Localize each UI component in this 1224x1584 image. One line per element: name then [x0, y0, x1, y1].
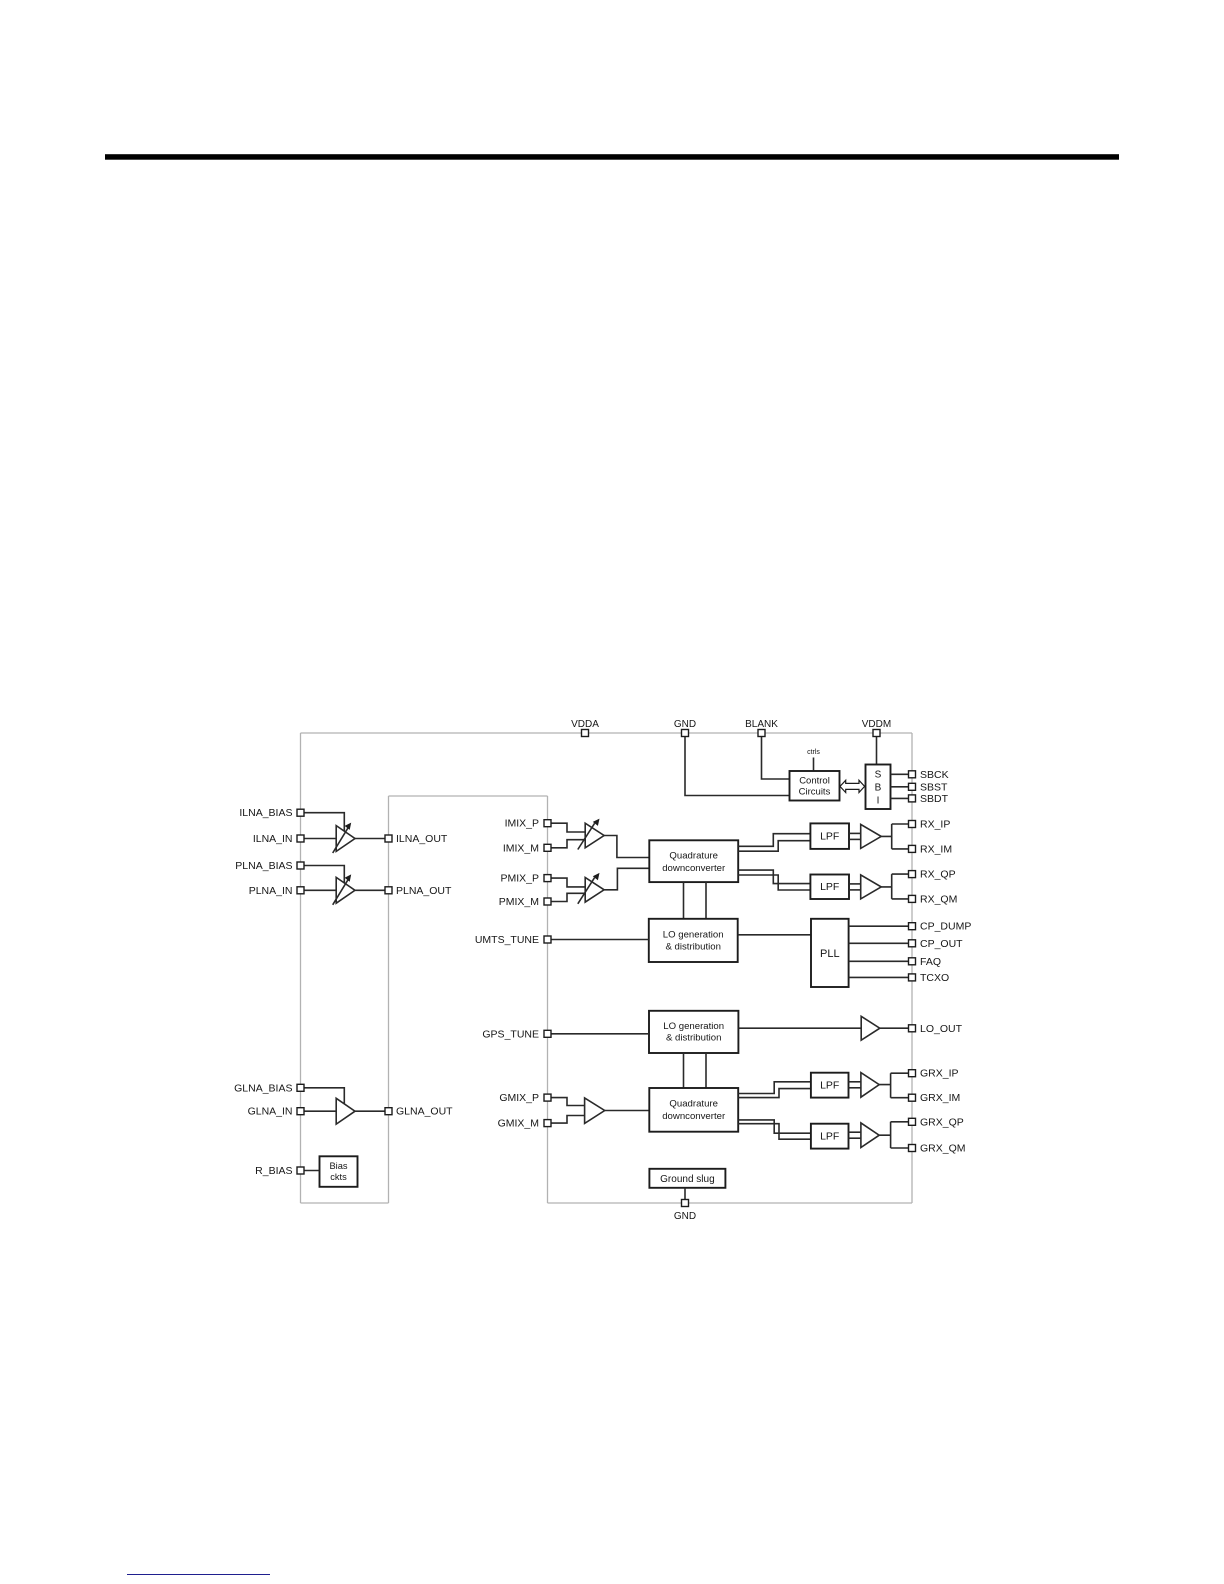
- wire pair quad2 to LPF4: [738, 1120, 811, 1139]
- svg-text:PLNA_BIAS: PLNA_BIAS: [235, 860, 292, 872]
- amplifier GRX I: [861, 1073, 879, 1098]
- svg-text:SBDT: SBDT: [920, 793, 949, 805]
- svg-text:VDDA: VDDA: [571, 719, 599, 730]
- pin ILNA_BIAS: [239, 807, 304, 819]
- svg-text:B: B: [875, 783, 882, 794]
- wire PMIX_P: [548, 878, 586, 887]
- block SBI U-SBI: [866, 765, 891, 810]
- pin GPS_TUNE: [482, 1028, 551, 1040]
- wire LO_OUT: [880, 1027, 909, 1029]
- svg-text:downconverter: downconverter: [662, 863, 726, 874]
- svg-text:BLANK: BLANK: [745, 719, 778, 730]
- pin RX_IP: [909, 819, 951, 831]
- amplifier RX Q: [861, 875, 882, 899]
- svg-text:PLL: PLL: [820, 948, 840, 960]
- amplifier GLNA: [336, 1098, 355, 1124]
- pin RX_QP: [909, 869, 956, 881]
- svg-text:Bias: Bias: [329, 1161, 347, 1171]
- label ctrls: [807, 749, 820, 756]
- block LPF1: [810, 823, 849, 849]
- wire LO2 to quad2 left: [683, 1053, 685, 1088]
- svg-text:ctrls: ctrls: [807, 749, 820, 756]
- svg-text:LPF: LPF: [820, 831, 839, 843]
- svg-text:GRX_QP: GRX_QP: [920, 1116, 964, 1128]
- pin GND bottom: [674, 1200, 696, 1223]
- footer link underline: [127, 1574, 270, 1576]
- wire CP_DUMP: [849, 925, 909, 927]
- amplifier ILNA: [333, 826, 355, 853]
- svg-text:CP_DUMP: CP_DUMP: [920, 921, 971, 933]
- wire ILNA_IN: [301, 838, 337, 840]
- wire PMIX out: [604, 868, 649, 890]
- wire RX_IP RX_IM split: [881, 824, 908, 849]
- svg-text:RX_QM: RX_QM: [920, 893, 957, 905]
- svg-text:UMTS_TUNE: UMTS_TUNE: [475, 934, 539, 946]
- svg-text:IMIX_P: IMIX_P: [505, 818, 539, 830]
- wire pair LPF2 to amp: [849, 884, 861, 890]
- svg-text:FAQ: FAQ: [920, 956, 941, 968]
- chip outer boundary: [301, 733, 913, 1203]
- wire GPS_TUNE: [548, 1033, 650, 1035]
- pin RX_IM: [909, 843, 953, 855]
- wire GLNA_IN: [301, 1110, 337, 1112]
- pin IMIX_M: [503, 842, 551, 854]
- pin GMIX_M: [498, 1118, 551, 1130]
- block Quadrature downconverter UMTS: [649, 840, 738, 882]
- pin BLANK: [745, 719, 778, 737]
- pin SBDT: [909, 793, 949, 805]
- svg-text:GMIX_M: GMIX_M: [498, 1118, 539, 1130]
- pin GMIX_P: [499, 1092, 551, 1104]
- pin VDDA: [571, 719, 599, 737]
- svg-text:Ground slug: Ground slug: [660, 1174, 714, 1185]
- amplifier GMIX: [585, 1098, 605, 1124]
- wire LO2 to amp: [738, 1027, 861, 1029]
- svg-text:& distribution: & distribution: [666, 1033, 721, 1044]
- wire SBST: [891, 786, 909, 788]
- svg-text:GLNA_BIAS: GLNA_BIAS: [234, 1082, 292, 1094]
- svg-text:ILNA_IN: ILNA_IN: [253, 833, 293, 845]
- wire PLNA_IN: [301, 889, 337, 891]
- amplifier IMIX VGA: [578, 823, 604, 849]
- svg-text:PLNA_IN: PLNA_IN: [249, 885, 293, 897]
- svg-text:GPS_TUNE: GPS_TUNE: [482, 1028, 539, 1040]
- svg-text:I: I: [877, 796, 880, 807]
- pin GLNA_OUT: [385, 1106, 453, 1118]
- pin GND top: [674, 719, 696, 737]
- wire pair LPF4 to amp: [849, 1132, 861, 1138]
- wire pair LPF1 to amp: [849, 833, 861, 839]
- block LO generation GPS: [649, 1011, 738, 1053]
- block Quadrature downconverter GPS: [649, 1088, 738, 1132]
- LNA inner box boundary: [389, 796, 548, 1203]
- block LPF4: [811, 1124, 849, 1149]
- wire PLNA_OUT: [355, 889, 389, 891]
- svg-text:PLNA_OUT: PLNA_OUT: [396, 885, 452, 897]
- header rule: [105, 154, 1119, 160]
- pin IMIX_P: [505, 818, 551, 830]
- pin LO_OUT: [909, 1023, 963, 1035]
- svg-text:GRX_IP: GRX_IP: [920, 1068, 959, 1080]
- wire GRX_IP GRX_IM split: [879, 1073, 908, 1098]
- wire GRX_QP GRX_QM split: [879, 1122, 908, 1148]
- wire pair quad1 to LPF1: [738, 834, 810, 852]
- svg-text:GLNA_OUT: GLNA_OUT: [396, 1106, 453, 1118]
- wire SBDT: [891, 797, 909, 799]
- svg-text:LO_OUT: LO_OUT: [920, 1023, 963, 1035]
- svg-text:IMIX_M: IMIX_M: [503, 842, 539, 854]
- svg-text:SBST: SBST: [920, 781, 948, 793]
- wire quad1 to LO1 left: [683, 882, 685, 919]
- wire BLANK: [762, 733, 790, 779]
- wire pair LPF3 to amp: [849, 1082, 861, 1088]
- svg-text:ILNA_BIAS: ILNA_BIAS: [239, 807, 292, 819]
- wire IMIX_P: [548, 823, 586, 832]
- svg-text:LPF: LPF: [820, 1131, 839, 1143]
- amplifier RX I: [861, 824, 882, 848]
- wire IMIX_M: [548, 840, 586, 848]
- pin GRX_QM: [909, 1143, 966, 1155]
- pin PMIX_M: [499, 896, 551, 908]
- pin FAQ: [909, 956, 942, 968]
- pin ILNA_IN: [253, 833, 304, 845]
- double arrow Control-SBI: [840, 780, 865, 792]
- pin GLNA_BIAS: [234, 1082, 304, 1094]
- pin GLNA_IN: [248, 1106, 304, 1118]
- svg-text:SBCK: SBCK: [920, 769, 949, 781]
- wire GLNA_OUT: [355, 1110, 389, 1112]
- wire FAQ: [849, 960, 909, 962]
- wire TCXO: [849, 976, 909, 978]
- wire ILNA_BIAS: [301, 813, 345, 831]
- svg-text:PMIX_P: PMIX_P: [500, 873, 539, 885]
- wire pair quad1 to LPF2: [738, 870, 810, 890]
- svg-text:ILNA_OUT: ILNA_OUT: [396, 833, 448, 845]
- pin CP_DUMP: [909, 921, 972, 933]
- svg-text:RX_IP: RX_IP: [920, 819, 950, 831]
- block LPF2: [810, 875, 849, 900]
- wire ground slug to GND: [684, 1188, 686, 1203]
- pin PMIX_P: [500, 873, 551, 885]
- amplifier LO_OUT: [861, 1016, 880, 1040]
- wire CP_OUT: [849, 942, 909, 944]
- wire LO1 to PLL: [738, 934, 811, 936]
- svg-text:S: S: [875, 770, 882, 781]
- svg-text:LPF: LPF: [820, 881, 839, 893]
- svg-text:GND: GND: [674, 1211, 696, 1222]
- svg-text:ckts: ckts: [330, 1172, 347, 1182]
- block PLL: [811, 919, 849, 987]
- svg-text:RX_IM: RX_IM: [920, 843, 952, 855]
- svg-text:Quadrature: Quadrature: [669, 1098, 718, 1109]
- pin GRX_IP: [909, 1068, 959, 1080]
- svg-text:Circuits: Circuits: [799, 787, 831, 798]
- pin UMTS_TUNE: [475, 934, 551, 946]
- pin GRX_QP: [909, 1116, 964, 1128]
- pin PLNA_OUT: [385, 885, 452, 897]
- svg-text:LO generation: LO generation: [663, 1021, 724, 1032]
- block Ground slug: [649, 1169, 725, 1188]
- block Bias ckts: [320, 1156, 358, 1187]
- svg-text:RX_QP: RX_QP: [920, 869, 956, 881]
- wire ILNA_OUT: [355, 838, 389, 840]
- svg-text:GLNA_IN: GLNA_IN: [248, 1106, 293, 1118]
- svg-text:CP_OUT: CP_OUT: [920, 938, 963, 950]
- wire GMIX_P: [548, 1098, 585, 1106]
- svg-text:GRX_QM: GRX_QM: [920, 1143, 966, 1155]
- amplifier GRX Q: [861, 1123, 879, 1148]
- svg-text:GRX_IM: GRX_IM: [920, 1092, 960, 1104]
- amplifier PMIX VGA: [578, 878, 604, 904]
- svg-text:GND: GND: [674, 719, 696, 730]
- wire quad1 to LO1 right: [705, 882, 707, 919]
- pin RX_QM: [909, 893, 958, 905]
- pin R_BIAS: [255, 1165, 304, 1177]
- wire GND top: [685, 733, 790, 796]
- svg-text:PMIX_M: PMIX_M: [499, 896, 539, 908]
- pin SBST: [909, 781, 949, 793]
- wire R_BIAS: [301, 1170, 320, 1172]
- svg-text:LO generation: LO generation: [663, 930, 724, 941]
- block LO generation UMTS: [649, 919, 738, 962]
- svg-text:LPF: LPF: [820, 1080, 839, 1092]
- wire VDDM: [876, 733, 878, 765]
- svg-text:& distribution: & distribution: [665, 942, 720, 953]
- svg-text:TCXO: TCXO: [920, 972, 949, 984]
- wire GMIX_M: [548, 1116, 585, 1124]
- svg-text:GMIX_P: GMIX_P: [499, 1092, 539, 1104]
- wire SBCK: [891, 773, 909, 775]
- wire RX_QP RX_QM split: [881, 874, 908, 899]
- pin GRX_IM: [909, 1092, 961, 1104]
- wire LO2 to quad2 right: [705, 1053, 707, 1088]
- pin TCXO: [909, 972, 950, 984]
- wire UMTS_TUNE: [548, 939, 649, 941]
- wire GLNA_BIAS: [301, 1088, 345, 1104]
- amplifier PLNA: [333, 877, 355, 904]
- svg-text:R_BIAS: R_BIAS: [255, 1165, 292, 1177]
- wire GMIX out: [605, 1110, 650, 1112]
- svg-text:VDDM: VDDM: [862, 719, 891, 730]
- svg-text:Quadrature: Quadrature: [669, 851, 718, 862]
- pin CP_OUT: [909, 938, 964, 950]
- svg-text:downconverter: downconverter: [662, 1111, 726, 1122]
- pin SBCK: [909, 769, 949, 781]
- pin PLNA_IN: [249, 885, 304, 897]
- wire ctrls: [813, 758, 815, 772]
- svg-text:Control: Control: [799, 776, 830, 787]
- block LPF3: [811, 1073, 849, 1098]
- pin PLNA_BIAS: [235, 860, 304, 872]
- pin VDDM: [862, 719, 891, 737]
- wire pair quad2 to LPF3: [738, 1082, 811, 1098]
- block Control Circuits: [790, 771, 840, 801]
- wire PLNA_BIAS: [301, 866, 345, 884]
- wire PMIX_M: [548, 893, 586, 901]
- pin ILNA_OUT: [385, 833, 448, 845]
- wire IMIX out: [604, 836, 649, 858]
